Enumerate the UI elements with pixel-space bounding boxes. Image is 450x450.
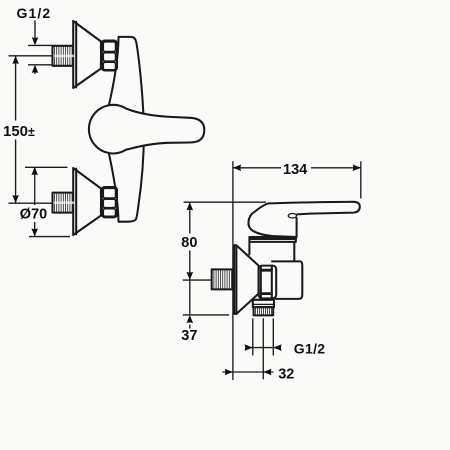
svg-text:80: 80 — [181, 235, 197, 251]
lever arm outline — [126, 109, 204, 150]
svg-text:150±: 150± — [3, 123, 35, 140]
32 right arrow (points left) — [263, 369, 271, 376]
top hex nut — [101, 41, 117, 71]
G1/2 dim vertical + ext lines — [34, 21, 36, 45]
cone side — [234, 245, 258, 314]
lever boss circle — [87, 105, 136, 154]
arrowheads right view — [187, 165, 361, 376]
lever side: top + tip + bottom — [248, 202, 359, 225]
80 bottom arrow down — [187, 272, 194, 280]
front block — [272, 261, 302, 299]
G1/2 dim line — [246, 347, 282, 349]
G1/2 ext lines — [252, 318, 254, 355]
thread hatching outlet — [256, 308, 272, 315]
arrowheads left view — [12, 37, 38, 236]
nipple side — [212, 269, 233, 289]
150 dim line — [15, 57, 17, 121]
150 top arrow (up) — [12, 56, 19, 64]
lever front lower edge — [296, 218, 298, 237]
svg-text:G1/2: G1/2 — [294, 340, 326, 356]
G1/2 up arrow — [32, 65, 39, 73]
G1/2 right arrow (points left) — [273, 344, 281, 351]
134 left arrow — [233, 165, 241, 172]
nut side — [259, 266, 277, 299]
G1/2 down arrow — [32, 37, 39, 45]
centerline ext — [183, 279, 212, 281]
37 bottom arrow up — [187, 315, 194, 323]
80/37 vertical — [189, 203, 191, 234]
wall plane vertical ext — [232, 161, 234, 380]
svg-text:G1/2: G1/2 — [17, 5, 52, 21]
body outline — [106, 37, 144, 222]
G1/2 left arrow (points right) — [245, 344, 253, 351]
svg-text:Ø70: Ø70 — [20, 207, 47, 223]
svg-text:32: 32 — [278, 366, 294, 382]
lever underside slant — [249, 224, 297, 237]
134 right arrow — [353, 165, 361, 172]
boss arc stroke — [89, 105, 126, 154]
dia70 top arrow (up) — [31, 167, 38, 175]
top union: thread nipple — [53, 46, 76, 66]
lever arm fill — [126, 109, 204, 150]
37 bottom ext — [183, 314, 229, 316]
svg-text:37: 37 — [181, 328, 197, 344]
top escutcheon cone — [73, 21, 101, 88]
thread hatching side nipple — [214, 270, 232, 289]
dia70 dim — [25, 166, 68, 168]
thread hatching top nipple — [55, 46, 73, 65]
32 left arrow (points right) — [225, 369, 233, 376]
thread hatching bottom nipple — [55, 193, 73, 212]
lever eye curl — [288, 213, 296, 217]
bottom hex nut — [101, 187, 117, 217]
134 dim — [233, 167, 281, 169]
valve body sides — [248, 242, 250, 255]
80 top ext — [184, 201, 266, 203]
80 top arrow up — [187, 202, 194, 210]
bottom escutcheon cone — [73, 168, 101, 235]
outlet — [253, 300, 274, 307]
32 dim line — [222, 371, 273, 373]
bottom union: thread nipple — [53, 193, 76, 213]
svg-text:134: 134 — [283, 162, 307, 178]
150 bottom arrow (down) — [12, 195, 19, 203]
cartridge collar — [249, 237, 295, 242]
dia70 bottom arrow (down) — [31, 228, 38, 236]
